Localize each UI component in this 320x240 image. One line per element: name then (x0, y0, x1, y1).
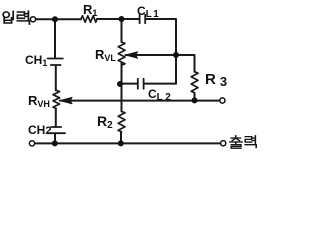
potentiometer RVL (118, 42, 125, 65)
력 (17, 12, 24, 18)
resistor R1 (81, 16, 97, 22)
resistor R3 (191, 72, 198, 93)
wire: CL1 right to corner, down to CL2 corner (146, 19, 176, 84)
node B junction dot (119, 16, 125, 22)
wire: RVL bottom to CL2 node (121, 63, 123, 84)
capacitor CH2 (48, 127, 65, 133)
wire: CH1 to RVH (55, 65, 57, 90)
label RVH (28, 93, 50, 109)
label CH1 (25, 53, 47, 68)
label CH2 (28, 123, 51, 137)
node A junction dot (52, 16, 58, 22)
R3 bottom junction dot (192, 97, 198, 103)
mid-right output terminal circle (220, 98, 225, 103)
label R3 (205, 71, 227, 89)
wire: R3 bottom stem (194, 93, 196, 100)
input terminal circle (30, 17, 35, 22)
bottom-left terminal circle (29, 141, 34, 146)
CH2 bottom junction dot (52, 140, 58, 146)
력 (245, 137, 252, 142)
label 출력 (output) : drawn glyphs (230, 136, 256, 148)
capacitor CL2 (138, 79, 144, 89)
label CL2 (148, 87, 173, 103)
wire: center column down to R2 (121, 84, 123, 111)
capacitor CH1 (48, 59, 63, 66)
CL2 node junction dot (117, 81, 123, 87)
wire: CL2 left lead (121, 83, 137, 85)
wire: CH2 to bottom wire (54, 134, 56, 144)
wire: R2 to bottom wire (120, 132, 122, 144)
label RVL (95, 47, 116, 63)
wire: RVL wiper line to R3 corner (126, 55, 195, 72)
capacitor CL1 (140, 15, 146, 24)
wire: node B down to RVL (121, 19, 123, 42)
wire: RVH wiper line across to R3 bottom node (60, 100, 195, 102)
wire: R3 node to mid-right output terminal (195, 100, 220, 102)
label CL1 (137, 4, 160, 20)
label R1 (83, 2, 97, 18)
bottom-right output terminal circle (221, 141, 226, 146)
wiper node junction dot (173, 52, 179, 58)
potentiometer RVH (53, 90, 60, 108)
bottom wire (35, 142, 219, 144)
label 입력 (input) : drawn glyphs (3, 11, 29, 24)
출 (235, 136, 237, 137)
입 (3, 12, 9, 18)
resistor R2 (118, 111, 125, 132)
wire: CL2 right lead to corner (144, 83, 176, 85)
R2 bottom junction dot (118, 140, 124, 146)
label R2 (97, 113, 113, 131)
wiper arrow RVL (126, 52, 138, 58)
wire: node A down to CH1 (54, 19, 56, 58)
wire top: input to R1 (36, 18, 81, 20)
wire: R1 to CL1 (97, 18, 139, 20)
wiper arrow RVH (60, 97, 72, 103)
wire: RVH to CH2 (55, 109, 57, 127)
